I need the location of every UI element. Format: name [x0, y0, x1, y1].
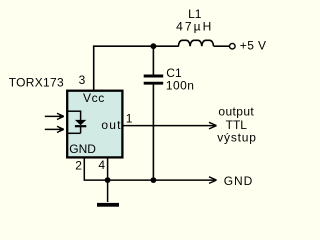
svg-text:GND: GND — [69, 142, 96, 156]
wire Vcc top horizontal — [93, 45, 179, 47]
wire L1 to +5V terminal — [214, 45, 230, 47]
svg-text:GND: GND — [224, 174, 253, 188]
light input arrow 1 — [45, 113, 64, 119]
svg-text:3: 3 — [79, 73, 86, 87]
wire pin4 vertical to ground symbol — [107, 157, 109, 202]
svg-text:Vcc: Vcc — [83, 91, 105, 105]
svg-text:výstup: výstup — [217, 131, 256, 145]
svg-text:out: out — [101, 118, 121, 132]
light input arrow 2 — [45, 126, 64, 132]
node junction C1/rail — [151, 177, 157, 183]
inductor L1 — [178, 40, 213, 46]
arrowhead output — [209, 122, 217, 129]
svg-text:+5 V: +5 V — [240, 38, 267, 52]
svg-text:1: 1 — [126, 111, 133, 125]
svg-text:47µH: 47µH — [176, 19, 213, 33]
photodiode D1 — [68, 111, 87, 133]
wire out pin 1 — [123, 125, 214, 127]
svg-text:2: 2 — [75, 158, 82, 172]
wire ground rail horizontal — [84, 179, 215, 181]
wire C1 bottom to ground rail — [152, 85, 154, 181]
ground symbol — [97, 203, 119, 207]
wire pin3 vertical — [93, 46, 95, 90]
wire C1 top — [152, 46, 154, 75]
svg-text:100n: 100n — [166, 79, 195, 93]
svg-text:output: output — [218, 105, 254, 119]
IC body U1 TORX173 — [67, 91, 122, 158]
node junction top (L1/C1/Vcc) — [151, 43, 157, 49]
node junction pin4/rail — [105, 177, 111, 183]
wire pin2 vertical — [83, 157, 85, 180]
capacitor C1 plates — [144, 76, 164, 83]
terminal +5V open circle — [230, 43, 236, 49]
svg-text:C1: C1 — [166, 66, 182, 80]
arrowhead GND — [209, 177, 217, 184]
svg-text:4: 4 — [98, 158, 105, 172]
svg-text:TORX173: TORX173 — [9, 75, 64, 89]
